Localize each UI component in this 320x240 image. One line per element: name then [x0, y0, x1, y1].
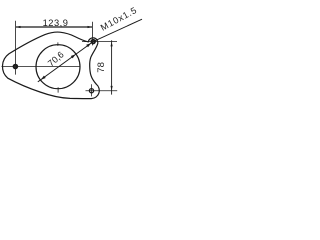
arrow at top-right hole [86, 43, 91, 47]
arrow at upper-right bore rim [71, 54, 76, 58]
top-right hole M10 [91, 40, 95, 44]
arrow bottom of 78 [111, 86, 113, 91]
arrow at lower-left bore rim [41, 76, 46, 80]
bottom-right hole vertical centerline [91, 84, 93, 96]
svg-text:123,9: 123,9 [43, 18, 69, 28]
leader line M10x1.5 [93, 19, 142, 41]
bore bottom centerline tick [57, 87, 59, 92]
bottom-right hole horizontal centerline / extension of 78 [86, 90, 118, 92]
dimension line 78 [111, 40, 113, 94]
arrow top of 78 [111, 42, 113, 47]
bore/left-hole horizontal centerline [2, 66, 81, 68]
svg-text:78: 78 [96, 62, 107, 73]
left hole M10 [14, 65, 18, 69]
dimension line 123,9 [16, 26, 93, 28]
top-right hole vertical centerline / extension of 123,9 [91, 22, 93, 46]
arrow right of 123,9 [88, 26, 93, 28]
left hole vertical centerline / extension line of 123,9 [15, 21, 17, 75]
diameter dimension line 70,6 (to top-right hole) [38, 42, 93, 82]
bore vertical centerline tick [57, 42, 59, 46]
top-right hole horizontal centerline / extension of 78 [82, 41, 117, 43]
arrow left of 123,9 [16, 26, 21, 28]
bore circle O70,6 [36, 45, 80, 89]
bottom-right hole M10 [89, 89, 93, 93]
flange outline [2, 32, 99, 99]
